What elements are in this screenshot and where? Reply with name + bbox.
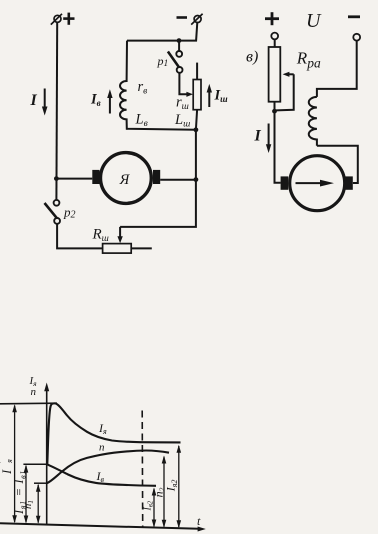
svg-text:n: n — [31, 386, 37, 398]
wiper arrowhead into r_sh — [186, 92, 193, 97]
svg-text:Iя2: Iя2 — [164, 480, 180, 493]
wire: motor right lead — [160, 179, 196, 181]
label minus (right circuit) — [348, 15, 360, 18]
svg-text:Iш: Iш — [214, 88, 229, 105]
svg-text:p2: p2 — [63, 205, 76, 221]
rheostat R_sh (horizontal) with wiper — [92, 227, 152, 254]
rheostat wiper loop with arrow — [276, 72, 294, 111]
terminal minus (left circuit) — [177, 14, 203, 25]
junction node at motor right wire — [194, 177, 199, 182]
level line I_ya1 — [23, 463, 46, 465]
wire: motor left lead — [56, 178, 92, 180]
x axis with label t — [0, 514, 206, 532]
switch p1 — [157, 42, 183, 73]
level line n1 — [34, 482, 47, 484]
field winding coil r_v / L_v — [120, 41, 196, 130]
wire: rheostat bottom down to motor left brush — [275, 102, 281, 183]
svg-text:в): в) — [246, 49, 258, 66]
terminal plus (left circuit) — [51, 13, 75, 25]
terminal circle - (right) — [353, 34, 360, 41]
wire: - terminal down and left to series coil — [317, 41, 357, 97]
svg-text:U: U — [306, 10, 322, 32]
curve I_v (field current transient) — [47, 464, 156, 486]
svg-text:′: ′ — [0, 461, 7, 463]
dashed switching line — [141, 411, 144, 528]
svg-text:Iв: Iв — [90, 92, 101, 109]
svg-text:p1: p1 — [157, 54, 169, 69]
wire: right vertical main (below r_sh down to R_sh wiper corner) — [120, 110, 197, 227]
svg-text:t: t — [197, 514, 201, 528]
level line I_ya peak — [0, 402, 57, 405]
wire: left vertical from + terminal down to switch p2 — [55, 22, 58, 200]
svg-text:rв: rв — [138, 79, 148, 97]
wire: from p1 to wiper arrow of r_sh — [179, 73, 187, 95]
curve I_ya (armature current transient) — [47, 403, 180, 464]
junction node at p1 branch — [177, 38, 182, 43]
dimension arrow I_ya2 — [164, 445, 182, 528]
dc motor armature circle Я — [92, 153, 160, 204]
svg-text:n: n — [99, 442, 105, 454]
wire: + terminal to rheostat top — [274, 40, 276, 48]
svg-text:Lв: Lв — [135, 111, 148, 129]
svg-text:Iв: Iв — [96, 469, 105, 484]
svg-text:Rра: Rра — [296, 49, 321, 71]
wire: from - terminal down and left (top of field loop) — [127, 22, 197, 40]
junction node at field loop bottom right — [194, 127, 199, 132]
svg-text:I: I — [30, 92, 38, 109]
starting rheostat R_pa — [269, 47, 281, 102]
y axis — [29, 375, 50, 525]
dimension arrow I_v2 — [142, 488, 156, 528]
svg-text:Iв2: Iв2 — [142, 500, 154, 511]
svg-text:Rш: Rш — [92, 227, 109, 245]
svg-text:Iя: Iя — [98, 421, 107, 436]
curve n (speed transient) — [47, 451, 169, 484]
svg-text:I: I — [0, 469, 14, 475]
current arrow I_v with label — [90, 89, 113, 113]
switch p2 — [45, 200, 76, 224]
dimension arrow n2 — [152, 456, 167, 528]
dimension arrow n1 — [23, 484, 41, 524]
current arrow I (right circuit) — [254, 124, 272, 154]
svg-text:Lш: Lш — [174, 112, 190, 130]
series excitation coil — [309, 97, 317, 146]
dimension arrow I_ya1 = I_v1 — [12, 465, 28, 524]
current arrow I_sh with label — [207, 84, 229, 107]
svg-text:Я: Я — [119, 172, 131, 188]
svg-text:I: I — [254, 128, 262, 145]
svg-text:rш: rш — [176, 95, 189, 113]
dc motor circle (right) with arrow — [281, 156, 353, 211]
terminal circle + (right) — [271, 33, 278, 40]
label plus (right circuit) — [265, 17, 279, 20]
dimension arrow I_ya' — [0, 404, 17, 523]
junction node at motor left wire — [54, 176, 59, 181]
current arrow I with label — [30, 89, 48, 116]
resistor r_sh (vertical) — [193, 63, 201, 110]
wire: coil bottom to motor right brush — [317, 146, 358, 183]
wire: from p2 down and right to R_sh — [57, 224, 103, 249]
junction node below rheostat — [272, 109, 277, 114]
